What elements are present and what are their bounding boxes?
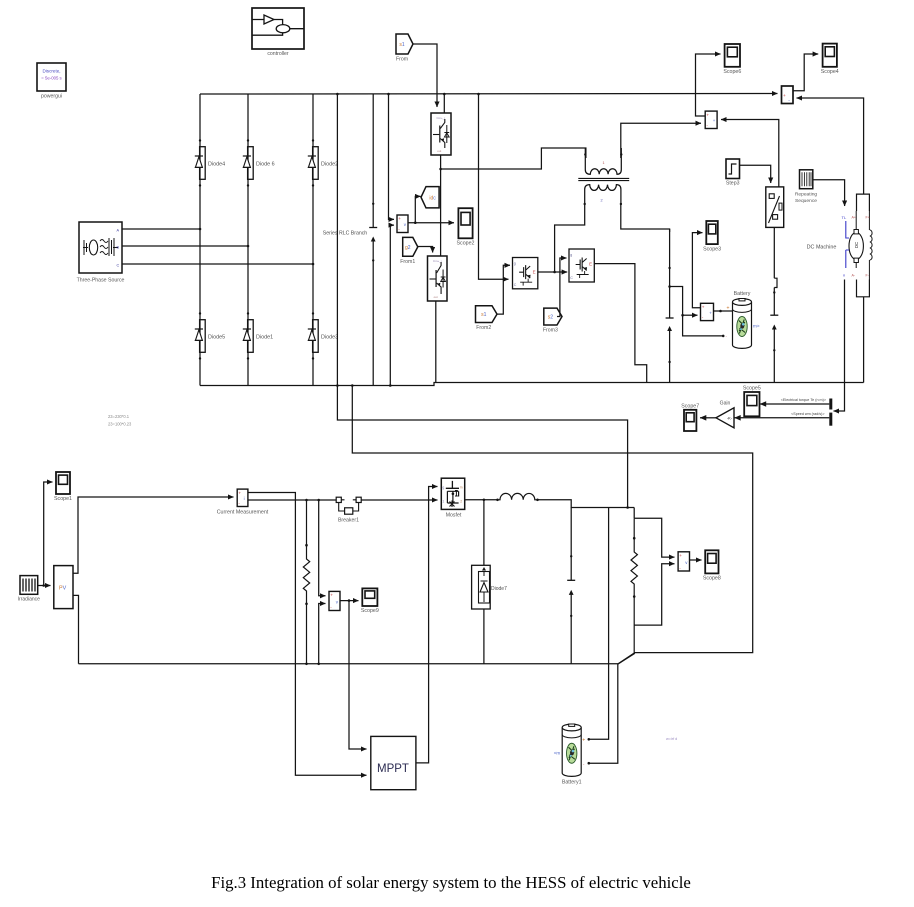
- svg-text:Irradiance: Irradiance: [18, 597, 40, 603]
- wire: V2 + feed from DC bus: [319, 500, 326, 596]
- wire: battery1 - feed to bottom bus: [589, 664, 618, 763]
- svg-text:controller: controller: [267, 51, 289, 57]
- svg-text:Scope8: Scope8: [703, 576, 721, 582]
- wire: V8 - tap: [634, 564, 674, 625]
- transformer T1 core: [578, 178, 629, 180]
- svg-text:Cm+_i: Cm+_i: [437, 116, 446, 120]
- wire: Irradiance to PV input: [38, 585, 51, 587]
- svg-text:+: +: [709, 310, 712, 315]
- svg-text:Three-Phase Source: Three-Phase Source: [77, 278, 125, 284]
- svg-text:i: i: [244, 496, 245, 501]
- wire: DC+ rail vertical (to lower system, wire A): [337, 94, 627, 508]
- svg-text:= 5e-005 s: = 5e-005 s: [41, 76, 61, 81]
- svg-text:DC: DC: [854, 242, 859, 248]
- svg-text:Scope6: Scope6: [723, 69, 741, 75]
- wire: V2 output to Scope9: [340, 600, 359, 602]
- IGBT3 block: [513, 258, 538, 289]
- From tag s1 (top): [396, 34, 413, 63]
- svg-text:powergui: powergui: [41, 94, 62, 100]
- wire: From s1 to IGBT1 gate: [413, 44, 437, 107]
- svg-text:Scope5: Scope5: [743, 386, 761, 392]
- svg-text:+: +: [783, 94, 786, 99]
- svg-text:g2: g2: [405, 245, 411, 251]
- wire: branch up to Scope1: [44, 482, 53, 586]
- svg-text:+: +: [713, 118, 716, 123]
- svg-text:F+: F+: [866, 216, 870, 220]
- note text upper left: [108, 414, 132, 427]
- Scope1: [54, 472, 72, 502]
- svg-text:MPPT: MPPT: [377, 763, 409, 775]
- svg-text:Diode3: Diode3: [321, 335, 338, 341]
- wire: gain output to Scope7: [700, 415, 716, 421]
- gain block: [716, 401, 734, 428]
- Irradiance source block: [18, 576, 40, 603]
- wire: IGBT1 emitter down to IGBT2: [440, 155, 442, 256]
- diode Diode4: [195, 139, 225, 186]
- diode Diode7 block: [472, 565, 507, 609]
- series RLC branch (output capacitor) right of transformer: [666, 229, 674, 383]
- wire: Mosfet source to inductor: [465, 499, 497, 501]
- svg-text:Scope1: Scope1: [54, 496, 72, 502]
- svg-text:Diode5: Diode5: [208, 335, 225, 341]
- wire: source phase B: [122, 245, 248, 247]
- Scope2: [457, 208, 475, 246]
- breaker block (upper circuit): [766, 187, 784, 228]
- IGBT4 block: [569, 249, 594, 282]
- svg-text:Diode1: Diode1: [256, 335, 273, 341]
- wire: Breaker1 to Mosfet drain: [361, 499, 437, 501]
- svg-text:s2: s2: [548, 315, 554, 321]
- svg-text:From: From: [396, 57, 408, 63]
- wire: transformer secondary left to IGBT3/IGBT4 midpoint: [555, 203, 585, 272]
- Battery (upper): [733, 291, 760, 348]
- svg-text:Cm+_i: Cm+_i: [433, 259, 442, 263]
- svg-text:Gain: Gain: [720, 401, 731, 407]
- svg-text:2: 2: [460, 499, 462, 503]
- series RLC branch (PV output capacitor): [567, 508, 575, 664]
- svg-text:From2: From2: [476, 325, 491, 331]
- wire: top bus to IGBT1 collector: [443, 94, 445, 113]
- bus selector bar: [829, 399, 832, 426]
- Scope3: [703, 221, 721, 252]
- svg-text:Current Measurement: Current Measurement: [217, 510, 269, 516]
- wire: V2 output branch to MPPT: [349, 601, 367, 749]
- svg-text:From1: From1: [400, 259, 415, 265]
- diode Diode3: [308, 312, 338, 359]
- wire: speed signal to Gain with label: [734, 412, 829, 420]
- IGBT1 module: [431, 113, 451, 155]
- svg-text:Series RLC Branch: Series RLC Branch: [323, 231, 368, 237]
- From tag g1 (From1): [400, 237, 418, 264]
- svg-text:g: g: [442, 486, 444, 490]
- wire: DC machine speed output to bus selector: [834, 280, 845, 412]
- svg-text:PV: PV: [59, 586, 67, 592]
- svg-text:2: 2: [601, 199, 603, 203]
- wire: current measurement signal to MPPT: [248, 493, 367, 776]
- wire: load resistor branch: [633, 508, 635, 519]
- Goto tag idc: [421, 187, 439, 208]
- svg-text:1: 1: [442, 499, 444, 503]
- Repeating Sequence block: [795, 170, 818, 204]
- MPPT controller block: [371, 736, 416, 789]
- transformer winding number labels: [601, 161, 605, 203]
- svg-text:s1: s1: [481, 312, 487, 318]
- svg-text:A+: A+: [852, 216, 857, 220]
- wire: Vdc measurement + feed from top bus: [389, 94, 395, 219]
- svg-text:idc: idc: [429, 195, 436, 201]
- wire: battery1 + feed from DC node: [589, 508, 609, 740]
- wire: branch to idc Goto tag: [415, 196, 420, 222]
- Scope9: [361, 588, 379, 614]
- svg-text:m>: m>: [753, 324, 760, 329]
- resistor R1 (PV side): [303, 500, 309, 664]
- wire: battery - return loop: [670, 287, 728, 340]
- wire: measurement to battery +: [714, 306, 733, 312]
- svg-text:Scope7: Scope7: [681, 403, 699, 409]
- wire: DC machine armature bottom to bus: [863, 297, 865, 383]
- svg-text:g: g: [570, 253, 572, 257]
- wire: IGBT3 emitter to IGBT4 collector: [538, 271, 567, 273]
- svg-text:+: +: [238, 490, 241, 495]
- wire: Step3 to breaker control: [740, 165, 771, 183]
- svg-text:Scope3: Scope3: [703, 246, 721, 252]
- svg-text:C: C: [117, 264, 120, 268]
- svg-text:Battery1: Battery1: [562, 780, 582, 786]
- Scope6: [723, 44, 741, 75]
- svg-text:-K-: -K-: [727, 416, 733, 421]
- svg-text:<Electrical torque Te (n m)>: <Electrical torque Te (n m)>: [781, 398, 826, 402]
- svg-text:Scope9: Scope9: [361, 608, 379, 614]
- svg-text:<m: <m: [554, 750, 561, 755]
- wire: source phase C: [122, 263, 313, 265]
- voltage measurement V2 (PV): [329, 591, 340, 610]
- svg-text:C: C: [514, 283, 517, 287]
- Step3 source block: [726, 159, 740, 187]
- voltage measurement V1 (Vdc): [397, 215, 408, 233]
- svg-text:+: +: [727, 306, 730, 312]
- svg-text:Fig.3 Integration of solar ene: Fig.3 Integration of solar energy system…: [211, 873, 691, 892]
- svg-text:Sequence: Sequence: [795, 198, 817, 204]
- svg-text:TL: TL: [842, 215, 847, 220]
- wire: V1 output to Scope2: [408, 222, 454, 224]
- wire: V8 + tap: [634, 518, 674, 557]
- wire: rectifier leg 3 vertical: [312, 94, 314, 386]
- sum block (speed error): [782, 86, 794, 104]
- voltage measurement V8 (load): [678, 552, 689, 571]
- wire: V2 - feed from bottom bus: [319, 604, 326, 664]
- wire: PV - output to bottom bus: [73, 595, 79, 663]
- svg-text:out: out: [437, 149, 441, 153]
- wire: bottom DC bus of rectifier: [200, 383, 864, 386]
- powergui block: [37, 63, 66, 100]
- svg-text:+: +: [702, 305, 705, 310]
- svg-text:g: g: [514, 262, 516, 266]
- svg-text:23=100*0.23: 23=100*0.23: [108, 422, 132, 427]
- inductor L1: [498, 493, 538, 499]
- Breaker1 block: [336, 497, 361, 523]
- wire: From3 to IGBT4 gate: [557, 258, 567, 317]
- svg-text:Diode2: Diode2: [321, 162, 338, 168]
- wire: From2 to IGBT3 gate: [497, 265, 510, 314]
- From tag s2 (From3): [543, 308, 562, 333]
- wire: Repeating Sequence to DC machine TL: [813, 180, 845, 206]
- svg-text:1: 1: [603, 161, 605, 165]
- diode Diode2: [308, 139, 338, 186]
- Series RLC Branch (DC link capacitor): [323, 94, 377, 386]
- wire: branch into battery current measurement input: [683, 314, 698, 316]
- svg-text:From3: From3: [543, 328, 558, 334]
- wire: Mosfet leg down to Diode7: [483, 500, 485, 566]
- From tag s1 (From2): [476, 306, 498, 331]
- wire: top DC bus: [200, 93, 778, 96]
- wire: DC- rail to lower load frame (wire B): [352, 386, 752, 664]
- svg-text:DC Machine: DC Machine: [807, 245, 837, 251]
- wire: Vdc measurement - feed from bottom bus: [390, 225, 394, 385]
- svg-text:Repeating: Repeating: [795, 191, 818, 197]
- svg-text:E: E: [533, 269, 536, 274]
- wire: PV + output to DC bus: [73, 497, 234, 573]
- svg-text:Mosfet: Mosfet: [446, 513, 462, 519]
- IGBT2 module: [428, 256, 448, 301]
- svg-text:Diode 6: Diode 6: [256, 162, 275, 168]
- wire: transformer primary right up to current measurement: [621, 123, 701, 158]
- DC Machine block: [807, 194, 872, 297]
- Scope4: [821, 44, 839, 75]
- svg-text:out: out: [434, 295, 438, 299]
- wire: Diode7 to bottom bus: [483, 609, 485, 664]
- transformer T1 primary winding: [584, 148, 622, 174]
- wire: MPPT output to Mosfet gate: [416, 487, 438, 763]
- wire: DC machine armature top to sum - input: [797, 98, 864, 194]
- wire: battery measurement signal to Scope3: [692, 233, 702, 308]
- svg-text:s1: s1: [399, 42, 405, 48]
- svg-text:m: m: [460, 486, 463, 490]
- svg-text:Step3: Step3: [726, 181, 740, 187]
- wire: breaker to battery-side cap branch: [774, 227, 777, 287]
- Scope8: [703, 550, 721, 581]
- wire: sum output to Scope4: [793, 54, 818, 91]
- svg-text:23=230*0.1: 23=230*0.1: [108, 414, 130, 419]
- wire: IGBT1 emitter to transformer primary left: [441, 148, 586, 169]
- wire: DC bus from measurement to Breaker1: [248, 499, 336, 501]
- svg-text:n: n: [843, 273, 845, 278]
- svg-text:+: +: [330, 593, 333, 598]
- wire: V8 output to Scope8: [690, 559, 702, 561]
- Current Measurement block (PV): [217, 489, 269, 515]
- wire: top bus down to IGBT3 collector: [479, 94, 509, 279]
- svg-text:+: +: [582, 738, 585, 744]
- wire: IGBT4 emitter to bottom bus: [594, 264, 646, 383]
- wire: IGBT2 emitter to bottom bus: [435, 301, 437, 383]
- diode Diode5: [195, 312, 225, 359]
- wire: current measurement signal to Scope6: [696, 54, 721, 116]
- svg-text:+: +: [706, 112, 709, 117]
- svg-text:Diode7: Diode7: [491, 586, 507, 592]
- svg-text:+: +: [398, 216, 401, 221]
- wire: lower bottom bus: [79, 663, 619, 665]
- wire: source phase A: [122, 228, 200, 230]
- svg-text:w=irf d: w=irf d: [666, 737, 677, 741]
- svg-text:<Speed wm (rad/s)>: <Speed wm (rad/s)>: [791, 412, 824, 416]
- Scope7: [681, 403, 699, 431]
- transformer T1 secondary winding: [584, 185, 623, 206]
- svg-text:C: C: [570, 276, 573, 280]
- Mosfet block: [441, 478, 464, 518]
- wire: torque signal to Scope5 with label: [760, 398, 830, 407]
- diode Diode1: [243, 312, 273, 359]
- series RLC branch (battery link capacitor): [770, 288, 778, 383]
- wire: inductor to DC node: [538, 500, 635, 508]
- wire: From1 to IGBT2 gate: [418, 247, 433, 253]
- Scope5: [743, 386, 761, 417]
- wire: measurement to breaker (feedback from right): [721, 120, 779, 187]
- PV array block: [54, 566, 73, 609]
- diode Diode 6: [243, 139, 275, 186]
- svg-text:Scope4: Scope4: [821, 69, 839, 75]
- wire: frame bottom edge with chamfer: [618, 653, 635, 664]
- wire: rectifier leg 2 vertical: [247, 94, 249, 386]
- Battery1: [554, 724, 582, 786]
- Three-Phase Source block: [77, 222, 125, 284]
- resistor R2 (load): [631, 518, 637, 652]
- wire: transformer secondary right to output cap branch: [621, 203, 670, 232]
- svg-text:Breaker1: Breaker1: [338, 518, 359, 524]
- current measurement block (series with breaker): [705, 111, 717, 128]
- wire: rectifier leg 1 vertical: [199, 94, 201, 386]
- svg-text:+: +: [679, 553, 682, 558]
- svg-text:E: E: [589, 262, 592, 267]
- svg-text:Discrete,: Discrete,: [42, 69, 60, 74]
- controller subsystem block: [252, 8, 304, 57]
- svg-text:Battery: Battery: [734, 291, 751, 297]
- current measurement block at battery: [701, 303, 714, 320]
- svg-text:Diode4: Diode4: [208, 162, 225, 168]
- svg-text:Scope2: Scope2: [457, 241, 475, 247]
